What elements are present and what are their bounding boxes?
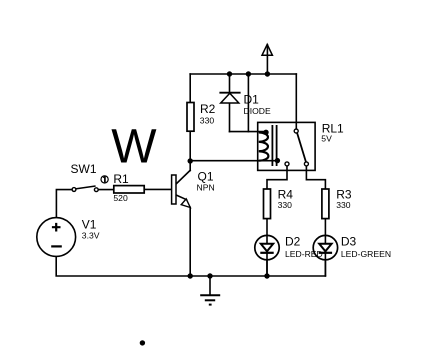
wire relay NO contact to R3	[306, 166, 325, 189]
wire R1 to Q1 base	[143, 188, 171, 190]
node coil top	[263, 130, 268, 135]
svg-text:D2: D2	[285, 234, 301, 248]
wire Q1 emitter down	[189, 207, 191, 276]
wire R4 through D2 to bottom rail	[266, 219, 268, 276]
wire D1 anode down	[229, 103, 231, 132]
resistor R1	[114, 186, 144, 193]
switch SW1	[72, 186, 98, 192]
wire coil bottom to collector node	[190, 160, 277, 162]
relay coil	[259, 132, 269, 160]
svg-text:3.3V: 3.3V	[82, 231, 100, 241]
svg-text:DIODE: DIODE	[244, 106, 271, 116]
battery V1	[37, 218, 76, 257]
wire bottom rail	[56, 256, 325, 276]
svg-text:R1: R1	[113, 172, 129, 186]
relay NC contact	[285, 162, 289, 166]
node D2 bottom	[264, 273, 269, 278]
node coil feed rail	[246, 71, 251, 76]
relay RL1 box	[258, 122, 315, 170]
svg-text:W: W	[111, 120, 157, 173]
node coil bottom	[275, 158, 280, 163]
svg-text:520: 520	[113, 193, 128, 203]
wire Q1 emitter diagonal	[177, 195, 187, 199]
svg-text:330: 330	[336, 200, 351, 210]
transistor Q1 emitter arrow	[181, 199, 190, 208]
relay common contact	[294, 129, 298, 133]
svg-text:D3: D3	[341, 234, 357, 248]
diode D1 triangle	[221, 93, 239, 103]
node emitter bottom	[188, 273, 193, 278]
wire V1 top to switch	[56, 190, 72, 218]
node collector	[188, 158, 193, 163]
wire rail right drop to relay common	[295, 74, 297, 129]
node D1 rail	[227, 71, 232, 76]
wire Q1 collector diagonal	[177, 170, 191, 183]
LED D2	[255, 235, 279, 276]
wire R2 bottom to collector node	[189, 131, 191, 171]
wire R3 through D3 to bottom rail	[324, 219, 326, 276]
transistor Q1 base bar	[172, 175, 176, 204]
wire top rail	[190, 73, 296, 75]
resistor R2	[187, 103, 194, 132]
svg-text:330: 330	[200, 116, 215, 126]
power symbol VCC arrow	[262, 44, 272, 55]
svg-text:V1: V1	[82, 217, 97, 231]
resistor R3	[322, 189, 329, 219]
stray dot	[140, 340, 145, 345]
node ground	[207, 273, 212, 278]
svg-text:330: 330	[278, 200, 293, 210]
resistor R4	[264, 189, 271, 219]
relay NO contact	[304, 162, 308, 166]
current probe marker	[101, 176, 108, 183]
wire power arrow stem	[266, 45, 268, 74]
svg-text:LED-RED: LED-RED	[285, 249, 323, 259]
svg-text:Q1: Q1	[198, 170, 214, 184]
svg-text:LED-GREEN: LED-GREEN	[341, 249, 391, 259]
wire relay NC contact to R4	[267, 166, 287, 189]
wire relay armature	[297, 134, 306, 162]
svg-text:R2: R2	[200, 102, 216, 116]
wire D1 cathode to rail	[229, 74, 231, 93]
svg-text:D1: D1	[244, 92, 260, 106]
svg-text:SW1: SW1	[71, 162, 97, 176]
svg-text:5V: 5V	[321, 133, 332, 143]
wire switch to R1	[98, 189, 114, 191]
node power arrow rail	[265, 71, 270, 76]
wire D1 to coil top	[230, 131, 267, 133]
relay core bars	[272, 125, 276, 166]
wire rail to coil top	[247, 74, 249, 132]
diode D1 cathode bar	[219, 92, 240, 94]
LED D3	[313, 235, 337, 276]
wire R2 top	[189, 74, 191, 103]
ground	[200, 276, 220, 305]
svg-text:NPN: NPN	[197, 182, 215, 192]
